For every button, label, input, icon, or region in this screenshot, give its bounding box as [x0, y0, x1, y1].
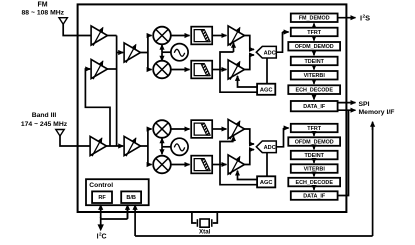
- block RF control: [92, 191, 112, 203]
- svg-text:Control: Control: [89, 182, 113, 189]
- block OFDM_DEMOD (bottom stack): [288, 137, 340, 146]
- amplifier B2: [124, 136, 140, 156]
- block ECH_DECODE (bottom stack): [288, 178, 340, 187]
- wire X1 to FL1: [171, 35, 190, 37]
- block DATA_IF (bottom stack): [291, 191, 338, 200]
- svg-text:Memory I/F: Memory I/F: [359, 109, 395, 116]
- amplifier VGA2: [228, 60, 244, 80]
- wire FL2 to VGA2: [212, 69, 226, 71]
- svg-text:TFRT: TFRT: [307, 126, 321, 132]
- wire AGC1 gain control to VGA2: [238, 76, 258, 87]
- block DATA_IF (top stack): [291, 101, 338, 111]
- wire ANT2 to B1: [60, 135, 90, 146]
- ADC2: [256, 141, 276, 153]
- amplifier A1 (FM LNA): [91, 26, 107, 46]
- block TDEINT (top stack): [291, 57, 338, 65]
- block Control: [86, 179, 149, 205]
- svg-text:I2S: I2S: [360, 14, 370, 23]
- wire ADC2 to TFRT bottom: [276, 128, 285, 147]
- svg-text:B/B: B/B: [126, 195, 136, 201]
- wire bus vertical x=116.6: [116, 36, 118, 147]
- svg-text:TDEINT: TDEINT: [304, 153, 324, 159]
- filter FL2: [191, 61, 212, 79]
- wire A1 output to summing bus: [108, 35, 117, 37]
- wire ADC1 to TFRT: [276, 32, 285, 52]
- wire B1 output to B2: [107, 145, 124, 147]
- block OFDM_DEMOD (top stack): [288, 42, 340, 51]
- svg-text:VITERBI: VITERBI: [304, 73, 326, 79]
- wire VGA3 to ADC2: [245, 129, 253, 144]
- wire bottom DATA_IF to Memory bus: [338, 110, 349, 195]
- svg-text:ECH_DECODE: ECH_DECODE: [295, 180, 333, 186]
- arrow OFDM_DEMOD to TDEINT bottom: [313, 146, 315, 150]
- svg-text:RF: RF: [98, 195, 106, 201]
- amplifier VGA4: [228, 155, 244, 175]
- wire I2C branch to B/B: [101, 206, 128, 219]
- block ECH_DECODE (top stack): [288, 85, 340, 94]
- oscillator LO1: [171, 44, 188, 61]
- arrow ECH_DECODE to DATA_IF: [313, 94, 315, 100]
- svg-text:AGC: AGC: [260, 87, 273, 93]
- wire LO2 to X3 X4: [162, 146, 171, 148]
- wire VGA2 to ADC1: [245, 55, 253, 70]
- filter FL1: [191, 27, 212, 45]
- wire VGA1 to ADC1: [245, 36, 253, 50]
- chip outline U1: [78, 4, 347, 212]
- mixer X2 (Q): [153, 61, 171, 79]
- svg-text:TFRT: TFRT: [307, 30, 321, 36]
- wire X2 to FL2: [171, 69, 190, 71]
- arrow TFRT to OFDM_DEMOD bottom: [313, 132, 315, 136]
- arrow TDEINT to VITERBI bottom: [313, 159, 315, 163]
- wire X4 to FL4: [171, 164, 190, 166]
- svg-text:AGC: AGC: [260, 180, 273, 186]
- wire ADC1 to AGC1: [266, 58, 268, 84]
- wire FL4 to VGA4: [212, 164, 226, 166]
- svg-text:DATA_IF: DATA_IF: [303, 104, 326, 110]
- svg-text:88 ~ 108 MHz: 88 ~ 108 MHz: [22, 9, 65, 16]
- block FM_DEMOD (top stack): [291, 14, 338, 23]
- wire I2C bus down to I2C pin: [100, 217, 102, 225]
- wire X3 to FL3: [171, 128, 190, 130]
- svg-text:VITERBI: VITERBI: [304, 166, 326, 172]
- crystal Y1: [196, 219, 198, 227]
- svg-text:TDEINT: TDEINT: [304, 59, 324, 65]
- wire crystal right to chip: [213, 211, 218, 223]
- svg-text:I2C: I2C: [97, 232, 107, 241]
- block VITERBI (top stack): [291, 71, 338, 80]
- mixer X4 (Q): [153, 156, 171, 174]
- amplifier A2 (Band III LNA top): [91, 59, 107, 79]
- filter FL3: [191, 120, 212, 138]
- antenna ANT2 (Band III): [56, 130, 64, 137]
- arrow OFDM_DEMOD to TDEINT: [313, 51, 315, 56]
- arrow TFRT to FM_DEMOD: [313, 24, 315, 28]
- block VITERBI (bottom stack): [291, 164, 338, 173]
- wire Band III tap to A2 input: [85, 69, 110, 146]
- svg-text:ECH_DECODE: ECH_DECODE: [295, 88, 333, 94]
- svg-text:SPI: SPI: [359, 101, 370, 108]
- AGC1: [257, 84, 275, 95]
- wire LO1 to X1 X2: [162, 51, 171, 53]
- wire AGC2 gain control to VGA4: [238, 171, 258, 180]
- ADC1: [256, 46, 276, 58]
- oscillator LO2: [171, 138, 188, 155]
- wire I2C bus to RF: [100, 205, 102, 218]
- wire VGA4 to ADC2: [245, 150, 253, 165]
- mixer X3 (I): [153, 120, 171, 138]
- wire A3 output split to mixers: [141, 36, 148, 70]
- amplifier VGA3: [228, 119, 244, 139]
- svg-text:Xtal: Xtal: [199, 229, 211, 236]
- arrow ECH_DECODE to DATA_IF bottom: [313, 186, 315, 190]
- filter FL4: [191, 156, 212, 174]
- wire AGC1 gain control to VGA1: [220, 52, 257, 92]
- wire A2 output to bus: [108, 68, 117, 70]
- block TFRT (top stack): [291, 28, 338, 37]
- wire AGC2 gain control to VGA3: [220, 142, 257, 185]
- wire chip to crystal left: [192, 211, 197, 223]
- arrow TDEINT to VITERBI: [313, 65, 315, 69]
- block TFRT (bottom stack): [291, 124, 338, 132]
- svg-text:OFDM_DEMOD: OFDM_DEMOD: [295, 139, 334, 145]
- wire ADC2 to AGC2: [266, 153, 268, 177]
- wire FL3 to VGA3: [212, 128, 226, 130]
- amplifier B1 (Band III LNA): [90, 136, 106, 156]
- svg-text:FM: FM: [37, 1, 47, 8]
- AGC2: [257, 176, 275, 187]
- amplifier VGA1: [228, 26, 244, 46]
- wire B/B to external memory bus: [134, 205, 136, 236]
- svg-text:174 ~ 245 MHz: 174 ~ 245 MHz: [21, 121, 68, 128]
- arrow VITERBI to ECH_DECODE bottom: [313, 173, 315, 177]
- svg-text:Band III: Band III: [32, 112, 57, 119]
- arrow VITERBI to ECH_DECODE: [313, 80, 315, 84]
- block TDEINT (bottom stack): [291, 151, 338, 160]
- wire FL1 to VGA1: [212, 35, 226, 37]
- mixer X1 (I): [153, 27, 171, 45]
- arrow TFRT to OFDM_DEMOD: [313, 36, 315, 40]
- wire ANT1 to A1: [63, 24, 91, 36]
- wire FM_DEMOD to I2S output: [338, 17, 356, 19]
- wire bus into A3: [117, 52, 124, 54]
- svg-text:DATA_IF: DATA_IF: [303, 193, 326, 199]
- wire DATA_IF to SPI output: [338, 102, 356, 104]
- svg-text:OFDM_DEMOD: OFDM_DEMOD: [295, 44, 334, 50]
- wire B2 output split to mixers: [141, 129, 148, 165]
- svg-text:FM_DEMOD: FM_DEMOD: [299, 16, 330, 22]
- block B/B control: [121, 191, 141, 203]
- amplifier A3: [124, 43, 140, 63]
- wire DATA_IF to Memory I/F output: [338, 109, 356, 111]
- antenna ANT1 (FM): [59, 18, 67, 25]
